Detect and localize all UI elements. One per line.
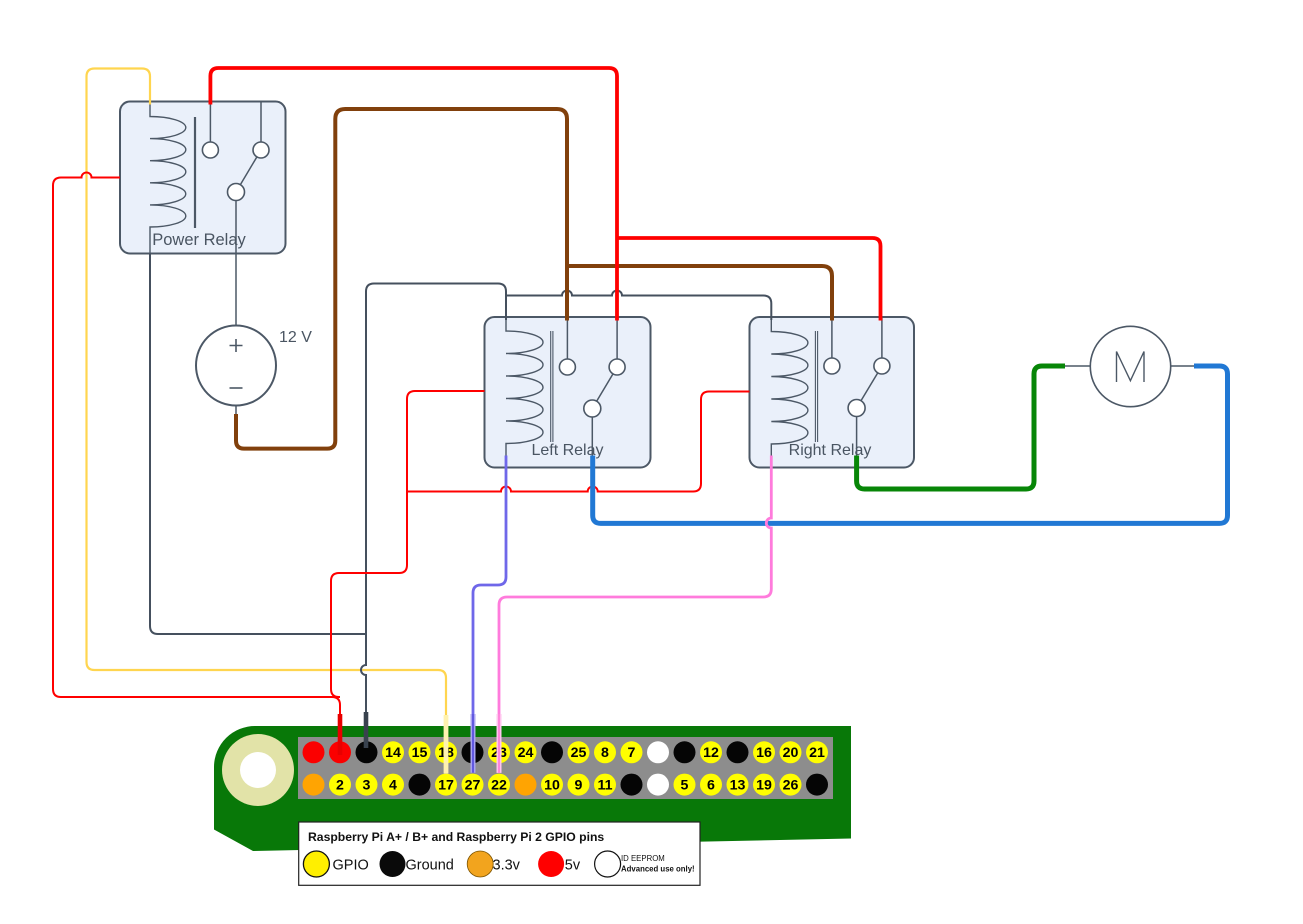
M glyph [1117,352,1145,383]
wire stub yellow pale at pin 17 [444,715,449,774]
svg-text:Raspberry Pi A+ / B+ and Raspb: Raspberry Pi A+ / B+ and Raspberry Pi 2 … [308,830,604,844]
wire stub pink pale at pin 22 [497,714,502,773]
contact NC [824,358,840,374]
svg-text:ID EEPROM: ID EEPROM [621,854,665,863]
coil [150,102,186,254]
relay K2 Left Relay [485,317,651,468]
wire green Right Relay common to motor [857,366,1065,489]
svg-text:22: 22 [491,778,507,794]
switch arm [592,367,617,409]
relay K1 Power Relay [120,102,286,326]
left lead [1065,365,1090,367]
wire red thick Power NO to relay NO contacts [210,68,617,321]
contact NO [609,359,625,375]
contact leads [210,102,261,326]
relay K3 Right Relay [750,317,915,468]
switch arm [857,366,882,408]
right lead [1171,365,1194,367]
contact NC [559,359,575,375]
contact leads [567,317,617,456]
wire blue Left Relay common to motor [593,366,1228,523]
wire dark gray coil link Left to Right Relay [506,291,771,321]
contact common [848,400,865,417]
svg-text:17: 17 [438,778,454,794]
svg-text:24: 24 [518,745,534,761]
mounting hole [240,752,276,788]
contact leads [832,317,882,456]
legend 5v [538,851,564,877]
svg-text:GPIO: GPIO [333,858,369,874]
legend 3.3v [467,851,493,877]
wire slate Left Relay coil to GPIO27 [473,456,506,773]
svg-text:15: 15 [412,745,428,761]
svg-text:2: 2 [336,778,344,794]
wire red 5V feed to Power Relay left [53,173,340,756]
voltage source V1 12V [196,326,312,415]
contact NO [253,142,269,158]
board outline [214,726,851,851]
mounting hole ring [222,734,294,806]
svg-text:Advanced use only!: Advanced use only! [621,865,695,874]
svg-text:7: 7 [628,745,636,761]
svg-text:Power Relay: Power Relay [152,231,246,249]
wire stub pink core at pin 22 [498,714,500,773]
svg-text:27: 27 [465,778,481,794]
wire stub red at pin 2 [338,714,343,755]
core line [194,117,196,228]
wire brown 12V minus to relay NC contacts [236,109,567,449]
contact NC [202,142,218,158]
motor M1 [1065,326,1194,406]
wire stub slate pale at pin 27 [471,714,476,773]
svg-text:10: 10 [544,778,560,794]
svg-text:26: 26 [783,778,799,794]
svg-text:12: 12 [703,745,719,761]
svg-text:16: 16 [756,745,772,761]
svg-text:13: 13 [730,778,746,794]
contact NO [874,358,890,374]
svg-text:3: 3 [363,778,371,794]
svg-text:14: 14 [385,745,401,761]
coil [771,317,808,456]
svg-text:Ground: Ground [406,858,454,874]
wire red 5V bus to Right Relay coil [407,392,750,492]
plus sign [230,339,243,352]
wire red thick branch to Right Relay [617,238,881,321]
svg-text:6: 6 [707,778,715,794]
svg-text:8: 8 [601,745,609,761]
svg-text:20: 20 [783,745,799,761]
wire dark gray Power Relay coil to GND [150,254,366,635]
wire pink Right Relay coil to GPIO22 [499,456,771,773]
wire red 5V to Left Relay coil [331,391,485,697]
svg-text:9: 9 [575,778,583,794]
wire stub gray at pin GND [364,712,369,748]
svg-text:19: 19 [756,778,772,794]
svg-text:3.3v: 3.3v [493,858,521,874]
svg-text:5v: 5v [565,858,581,874]
core lines [815,331,817,442]
coil [506,317,543,456]
raspberry pi board [214,726,851,885]
svg-text:25: 25 [571,745,587,761]
legend box [299,822,700,885]
core lines [551,331,553,442]
bottom lead [235,406,237,415]
wire brown branch to Right Relay [567,266,832,321]
switch arm [236,150,261,192]
GPIO pins [303,741,829,795]
svg-text:4: 4 [389,778,397,794]
svg-text:5: 5 [681,778,689,794]
wire yellow GPIO18 to Power Relay coil [87,69,447,717]
legend Ground [380,851,406,877]
contact common [228,184,245,201]
wire dark gray Left Relay coil to GND pin [361,284,506,749]
GPIO header [298,737,833,799]
legend GPIO [303,851,329,877]
minus sign [230,387,243,389]
wire stub slate core at pin 27 [472,714,474,773]
legend ID EEPROM [595,851,621,877]
svg-text:12 V: 12 V [279,329,312,346]
svg-text:11: 11 [598,778,613,794]
svg-text:21: 21 [809,745,825,761]
contact common [584,400,601,417]
